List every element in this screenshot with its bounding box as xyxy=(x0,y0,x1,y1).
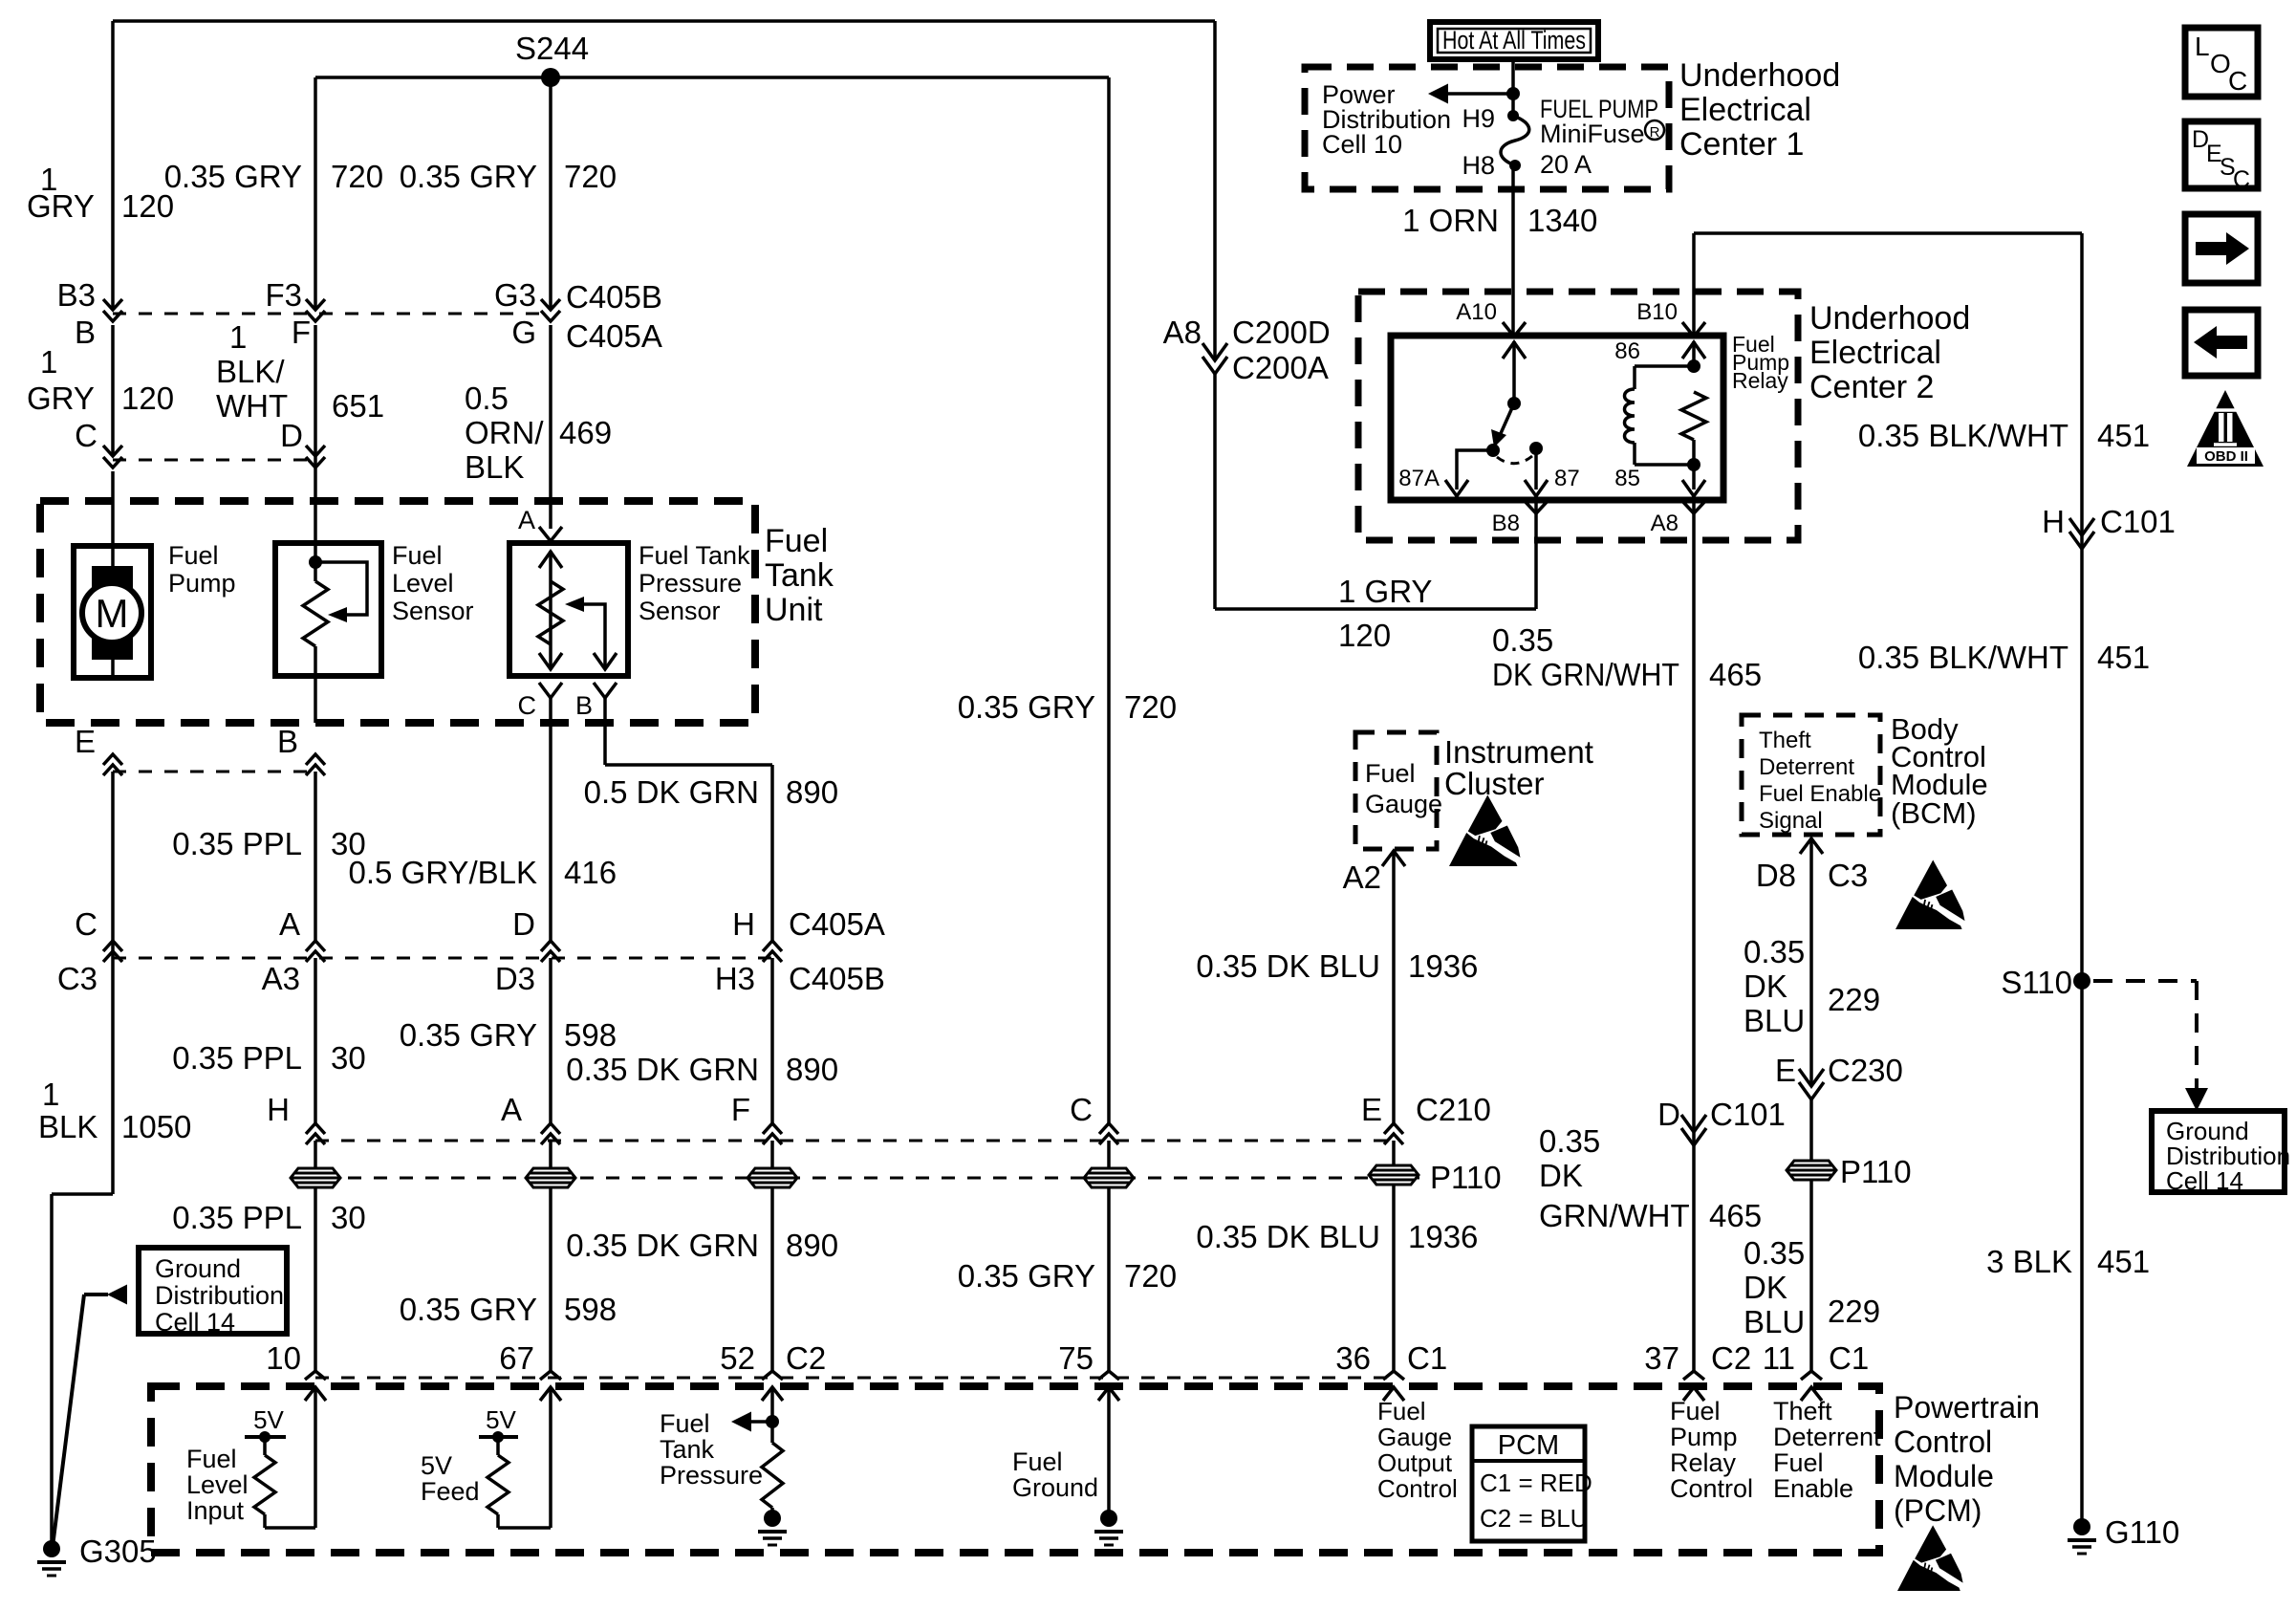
fuel pump M xyxy=(74,546,151,678)
sidebar LOC box xyxy=(2185,28,2258,97)
connector row C210 xyxy=(315,1140,1394,1142)
svg-text:0.35 DK GRN: 0.35 DK GRN xyxy=(566,1228,759,1263)
svg-text:890: 890 xyxy=(786,1052,838,1087)
svg-text:Cell 14: Cell 14 xyxy=(155,1308,235,1337)
svg-text:598: 598 xyxy=(564,1292,617,1327)
svg-text:Input: Input xyxy=(186,1496,245,1525)
connector row C405B/C405A xyxy=(113,313,551,315)
svg-text:85: 85 xyxy=(1614,466,1640,491)
svg-text:D: D xyxy=(512,906,535,942)
svg-text:229: 229 xyxy=(1828,1294,1880,1329)
sidebar back arrow xyxy=(2185,310,2258,376)
relay switch xyxy=(1512,341,1516,403)
svg-text:0.5 DK GRN: 0.5 DK GRN xyxy=(584,774,759,810)
fuel tank unit dashed box xyxy=(40,501,755,723)
svg-text:E: E xyxy=(75,724,96,759)
ESD symbol instrument cluster xyxy=(1449,795,1520,866)
P110 grommet on theft wire xyxy=(1787,1161,1836,1180)
svg-text:0.35 PPL: 0.35 PPL xyxy=(172,1040,302,1076)
svg-text:598: 598 xyxy=(564,1017,617,1053)
svg-text:G110: G110 xyxy=(2105,1514,2179,1550)
svg-text:C405A: C405A xyxy=(566,318,662,354)
svg-text:30: 30 xyxy=(331,1200,366,1235)
svg-text:B: B xyxy=(575,691,593,720)
svg-text:416: 416 xyxy=(564,855,617,890)
svg-text:Electrical: Electrical xyxy=(1809,335,1941,371)
svg-text:Pump: Pump xyxy=(1670,1423,1738,1451)
ground G305 xyxy=(43,1540,60,1557)
svg-text:5V: 5V xyxy=(486,1405,516,1434)
underhood electrical center 2 dashed box xyxy=(1358,292,1798,540)
svg-text:A2: A2 xyxy=(1343,859,1381,895)
PCM fuel tank pressure circuit (pin 52) xyxy=(770,1387,774,1443)
svg-text:P110: P110 xyxy=(1840,1154,1912,1189)
svg-text:PCM: PCM xyxy=(1498,1430,1559,1461)
arrow to ground distribution cell xyxy=(107,1285,127,1305)
svg-text:Feed: Feed xyxy=(421,1477,480,1506)
svg-text:0.35: 0.35 xyxy=(1539,1123,1600,1159)
svg-text:D: D xyxy=(1657,1097,1680,1132)
svg-text:Fuel: Fuel xyxy=(392,541,443,570)
svg-text:C: C xyxy=(1070,1092,1093,1127)
svg-text:0.35 GRY: 0.35 GRY xyxy=(400,1017,537,1053)
svg-text:G305: G305 xyxy=(79,1534,157,1569)
svg-text:451: 451 xyxy=(2097,1244,2150,1279)
svg-text:H3: H3 xyxy=(715,961,755,996)
svg-text:GRY: GRY xyxy=(27,188,95,224)
svg-text:Tank: Tank xyxy=(765,557,834,594)
svg-text:Fuel: Fuel xyxy=(168,541,219,570)
svg-text:OBD II: OBD II xyxy=(2204,448,2248,465)
PCM dashed box xyxy=(151,1386,1879,1553)
svg-text:DK: DK xyxy=(1744,968,1787,1004)
svg-text:BLK: BLK xyxy=(465,449,524,485)
wire: pressure B signal 0.5 DK GRN 890 xyxy=(605,763,772,767)
svg-text:H: H xyxy=(732,906,755,942)
svg-text:Powertrain: Powertrain xyxy=(1894,1390,2040,1425)
svg-text:0.35 GRY: 0.35 GRY xyxy=(958,1258,1095,1294)
svg-text:M: M xyxy=(96,591,129,636)
svg-text:B3: B3 xyxy=(57,277,96,313)
svg-text:Fuel: Fuel xyxy=(765,523,828,559)
svg-text:H9: H9 xyxy=(1462,104,1495,133)
svg-text:67: 67 xyxy=(499,1340,534,1376)
svg-text:0.5: 0.5 xyxy=(465,381,509,416)
svg-text:L: L xyxy=(2195,32,2210,61)
svg-text:Unit: Unit xyxy=(765,592,823,628)
svg-text:Center 2: Center 2 xyxy=(1809,369,1934,405)
svg-text:D8: D8 xyxy=(1756,858,1796,893)
svg-text:0.35 BLK/WHT: 0.35 BLK/WHT xyxy=(1858,418,2069,453)
svg-text:229: 229 xyxy=(1828,982,1880,1017)
svg-text:1050: 1050 xyxy=(121,1109,191,1144)
connector row C/D xyxy=(113,459,315,462)
wire 1 ORN 1340 xyxy=(1511,165,1515,337)
OBD II symbol xyxy=(2187,390,2264,467)
svg-text:Ground: Ground xyxy=(1012,1473,1098,1502)
sidebar DESC box xyxy=(2185,121,2258,188)
svg-text:C: C xyxy=(75,906,97,942)
svg-text:75: 75 xyxy=(1058,1340,1094,1376)
hot at all times tag xyxy=(1430,22,1598,59)
svg-text:651: 651 xyxy=(332,388,384,424)
svg-text:Pressure: Pressure xyxy=(660,1461,763,1490)
connector D C101 xyxy=(1681,1115,1706,1132)
svg-text:Relay: Relay xyxy=(1670,1448,1737,1477)
svg-text:Fuel: Fuel xyxy=(1377,1397,1426,1425)
fuel level sensor xyxy=(275,543,381,676)
svg-text:1 GRY: 1 GRY xyxy=(1338,574,1432,609)
svg-text:465: 465 xyxy=(1709,657,1762,692)
svg-text:Output: Output xyxy=(1377,1448,1453,1477)
svg-text:0.35 GRY: 0.35 GRY xyxy=(958,689,1095,725)
connector row E/B xyxy=(113,771,315,773)
svg-text:720: 720 xyxy=(1124,689,1177,725)
svg-text:87A: 87A xyxy=(1398,466,1440,491)
svg-text:C: C xyxy=(75,418,97,453)
svg-text:Distribution: Distribution xyxy=(155,1281,284,1310)
svg-text:A: A xyxy=(279,906,300,942)
svg-text:D: D xyxy=(280,418,303,453)
svg-text:Fuel: Fuel xyxy=(186,1445,237,1473)
svg-text:ORN/: ORN/ xyxy=(465,415,544,450)
connector row P110 grommets xyxy=(296,1177,1419,1180)
svg-text:Underhood: Underhood xyxy=(1679,57,1840,94)
svg-text:C2: C2 xyxy=(786,1340,826,1376)
svg-text:Pump: Pump xyxy=(168,569,236,598)
sidebar forward arrow xyxy=(2185,214,2258,283)
connector A8 C200D/C200A xyxy=(1202,343,1227,360)
svg-text:B10: B10 xyxy=(1636,299,1678,325)
svg-text:F: F xyxy=(292,315,311,350)
svg-text:0.35 PPL: 0.35 PPL xyxy=(172,826,302,861)
svg-text:A: A xyxy=(518,506,535,534)
svg-text:0.35 DK BLU: 0.35 DK BLU xyxy=(1196,1219,1380,1254)
svg-text:0.35 BLK/WHT: 0.35 BLK/WHT xyxy=(1858,640,2069,675)
svg-text:Gauge: Gauge xyxy=(1377,1423,1452,1451)
svg-text:30: 30 xyxy=(331,1040,366,1076)
svg-text:20 A: 20 A xyxy=(1540,150,1592,179)
theft deterrent signal box xyxy=(1742,715,1880,835)
relay pin B8 xyxy=(1534,496,1538,513)
svg-text:Deterrent: Deterrent xyxy=(1759,754,1854,780)
thin connector row above PCM xyxy=(315,1377,1394,1380)
wire: A8 to relay B8 (1 GRY 120) xyxy=(1213,374,1217,609)
svg-text:Cluster: Cluster xyxy=(1444,766,1545,801)
svg-text:Level: Level xyxy=(392,569,454,598)
svg-text:GRY: GRY xyxy=(27,381,95,416)
svg-text:37: 37 xyxy=(1644,1340,1679,1376)
instrument cluster fuel gauge box xyxy=(1355,732,1437,849)
svg-text:R: R xyxy=(1650,124,1660,141)
ESD symbol PCM xyxy=(1897,1525,1963,1591)
ground distribution cell 14 box (left) xyxy=(139,1248,287,1334)
svg-text:A8: A8 xyxy=(1163,315,1202,350)
svg-text:36: 36 xyxy=(1335,1340,1371,1376)
svg-text:Fuel: Fuel xyxy=(1773,1448,1824,1477)
ground distribution cell 14 box (right) xyxy=(2152,1111,2285,1192)
svg-text:Module: Module xyxy=(1894,1459,1994,1493)
svg-text:C3: C3 xyxy=(1828,858,1868,893)
svg-text:Hot At All Times: Hot At All Times xyxy=(1442,26,1586,54)
svg-text:890: 890 xyxy=(786,1228,838,1263)
svg-text:Underhood: Underhood xyxy=(1809,300,1970,337)
svg-text:GRN/WHT: GRN/WHT xyxy=(1539,1198,1690,1233)
svg-text:C405B: C405B xyxy=(789,961,885,996)
svg-text:C1 = RED: C1 = RED xyxy=(1480,1469,1592,1497)
svg-text:C2: C2 xyxy=(1711,1340,1751,1376)
PCM 5V feed circuit (pin 67) xyxy=(549,1387,552,1528)
svg-text:0.35 GRY: 0.35 GRY xyxy=(164,159,302,194)
svg-text:C405A: C405A xyxy=(789,906,885,942)
svg-text:B: B xyxy=(277,724,298,759)
svg-text:3 BLK: 3 BLK xyxy=(1986,1244,2072,1279)
svg-text:B8: B8 xyxy=(1492,511,1520,536)
svg-text:C200A: C200A xyxy=(1232,350,1329,385)
svg-text:Theft: Theft xyxy=(1759,728,1811,753)
svg-text:H: H xyxy=(267,1092,290,1127)
svg-text:720: 720 xyxy=(564,159,617,194)
wire: B10 feed from 451 branch xyxy=(1692,233,1696,337)
svg-text:Gauge: Gauge xyxy=(1365,790,1442,818)
power distribution arrow xyxy=(1511,59,1515,116)
svg-text:C210: C210 xyxy=(1416,1092,1491,1127)
svg-text:DK GRN/WHT: DK GRN/WHT xyxy=(1492,657,1679,692)
svg-text:B: B xyxy=(75,315,96,350)
underhood electrical center 1 dashed box xyxy=(1305,67,1669,189)
svg-text:0.35 GRY: 0.35 GRY xyxy=(400,1292,537,1327)
svg-text:H8: H8 xyxy=(1462,151,1495,180)
svg-text:451: 451 xyxy=(2097,418,2150,453)
svg-text:Fuel Enable: Fuel Enable xyxy=(1759,781,1881,807)
svg-text:Theft: Theft xyxy=(1773,1397,1832,1425)
relay coil xyxy=(1633,366,1636,389)
svg-text:BLU: BLU xyxy=(1744,1003,1805,1038)
svg-text:720: 720 xyxy=(1124,1258,1177,1294)
svg-text:1: 1 xyxy=(42,1077,59,1112)
svg-text:465: 465 xyxy=(1709,1198,1762,1233)
pressure sensor internals xyxy=(549,551,552,669)
svg-text:G3: G3 xyxy=(494,277,536,313)
connector H C101 xyxy=(2069,518,2094,535)
svg-text:Cell 10: Cell 10 xyxy=(1322,130,1402,159)
svg-text:890: 890 xyxy=(786,774,838,810)
svg-text:(PCM): (PCM) xyxy=(1894,1493,1982,1528)
svg-text:Tank: Tank xyxy=(660,1435,715,1464)
svg-text:0.35: 0.35 xyxy=(1744,934,1805,969)
svg-text:BLK: BLK xyxy=(38,1109,97,1144)
svg-text:5V: 5V xyxy=(253,1405,284,1434)
wire to G305 xyxy=(52,1192,113,1196)
svg-text:1936: 1936 xyxy=(1408,948,1478,984)
svg-text:11: 11 xyxy=(1763,1340,1795,1376)
svg-text:S110: S110 xyxy=(2001,965,2072,1000)
svg-text:Pressure: Pressure xyxy=(639,569,742,598)
svg-text:720: 720 xyxy=(331,159,383,194)
svg-text:D3: D3 xyxy=(495,961,535,996)
fuse FUEL PUMP MiniFuse 20 A xyxy=(1507,110,1519,121)
fuel pump relay box xyxy=(1391,336,1723,500)
svg-text:0.5 GRY/BLK: 0.5 GRY/BLK xyxy=(348,855,537,890)
svg-text:C200D: C200D xyxy=(1232,315,1331,350)
svg-text:MiniFuse: MiniFuse xyxy=(1540,120,1645,148)
fuel gauge wire pin A2 xyxy=(1382,851,1405,866)
svg-text:DK: DK xyxy=(1744,1270,1787,1305)
svg-text:S244: S244 xyxy=(515,31,589,66)
svg-text:87: 87 xyxy=(1554,466,1580,491)
svg-text:(BCM): (BCM) xyxy=(1891,796,1977,830)
svg-text:F: F xyxy=(731,1092,750,1127)
svg-text:Fuel: Fuel xyxy=(660,1409,710,1438)
svg-text:C2 = BLU: C2 = BLU xyxy=(1480,1504,1588,1533)
svg-text:Sensor: Sensor xyxy=(392,597,474,625)
svg-text:1 ORN: 1 ORN xyxy=(1402,203,1499,238)
PCM pin chevrons xyxy=(305,1371,326,1380)
svg-text:Sensor: Sensor xyxy=(639,597,721,625)
svg-text:C: C xyxy=(2228,66,2247,96)
svg-text:C: C xyxy=(518,691,537,720)
svg-text:1340: 1340 xyxy=(1527,203,1597,238)
svg-text:Ground: Ground xyxy=(155,1254,241,1283)
svg-text:A3: A3 xyxy=(262,961,300,996)
svg-text:Fuel: Fuel xyxy=(1365,759,1416,788)
svg-text:Instrument: Instrument xyxy=(1444,734,1593,770)
wire: relay control 465 xyxy=(1692,513,1696,1371)
svg-text:A10: A10 xyxy=(1456,299,1497,325)
svg-text:120: 120 xyxy=(1338,618,1391,653)
svg-text:120: 120 xyxy=(121,381,174,416)
svg-text:H: H xyxy=(2042,504,2065,539)
relay pin A8 xyxy=(1692,496,1696,513)
svg-text:A8: A8 xyxy=(1651,511,1679,536)
svg-text:C101: C101 xyxy=(1710,1097,1786,1132)
svg-text:Cell 14: Cell 14 xyxy=(2166,1166,2243,1195)
relay resistor xyxy=(1681,392,1706,440)
svg-text:Deterrent: Deterrent xyxy=(1773,1423,1881,1451)
svg-text:1: 1 xyxy=(229,319,247,355)
svg-text:DK: DK xyxy=(1539,1158,1583,1193)
svg-text:Electrical: Electrical xyxy=(1679,92,1811,128)
wire: top feed (1 GRY 120) xyxy=(113,19,1215,23)
svg-text:WHT: WHT xyxy=(216,388,288,424)
svg-text:E: E xyxy=(1775,1053,1796,1088)
svg-text:0.35: 0.35 xyxy=(1492,622,1553,658)
theft wire pins D8/C3 xyxy=(1800,838,1823,854)
svg-text:451: 451 xyxy=(2097,640,2150,675)
svg-text:0.35 GRY: 0.35 GRY xyxy=(400,159,537,194)
svg-text:C1: C1 xyxy=(1407,1340,1447,1376)
svg-text:P110: P110 xyxy=(1430,1160,1502,1195)
svg-text:Level: Level xyxy=(186,1470,249,1499)
svg-text:C: C xyxy=(2233,166,2250,193)
svg-text:Control: Control xyxy=(1670,1474,1753,1503)
svg-text:Center 1: Center 1 xyxy=(1679,126,1804,163)
PCM fuel ground (pin 75) xyxy=(1107,1387,1111,1516)
svg-text:86: 86 xyxy=(1614,338,1640,364)
svg-text:Fuel: Fuel xyxy=(1670,1397,1721,1425)
svg-text:Fuel: Fuel xyxy=(1012,1447,1063,1476)
ground G110 xyxy=(2073,1518,2090,1535)
svg-text:0.35 PPL: 0.35 PPL xyxy=(172,1200,302,1235)
svg-text:10: 10 xyxy=(266,1340,301,1376)
svg-text:G: G xyxy=(511,315,536,350)
svg-text:1936: 1936 xyxy=(1408,1219,1478,1254)
connector E C230 xyxy=(1799,1069,1824,1086)
svg-text:Enable: Enable xyxy=(1773,1474,1853,1503)
svg-text:BLU: BLU xyxy=(1744,1304,1805,1339)
svg-text:A: A xyxy=(501,1092,522,1127)
svg-text:469: 469 xyxy=(559,415,612,450)
svg-text:C101: C101 xyxy=(2100,504,2176,539)
wire: segments below C405 xyxy=(111,325,115,456)
svg-text:F3: F3 xyxy=(265,277,302,313)
svg-text:0.35 DK BLU: 0.35 DK BLU xyxy=(1196,948,1380,984)
svg-text:5V: 5V xyxy=(421,1451,452,1480)
svg-text:Control: Control xyxy=(1894,1425,1992,1459)
svg-text:Fuel Tank: Fuel Tank xyxy=(639,541,750,570)
svg-text:BLK/: BLK/ xyxy=(216,354,285,389)
svg-text:1: 1 xyxy=(40,344,57,380)
connector row C405 lower xyxy=(113,957,772,960)
svg-text:C405B: C405B xyxy=(566,279,662,315)
svg-text:E: E xyxy=(1361,1092,1382,1127)
svg-text:C1: C1 xyxy=(1829,1340,1869,1376)
svg-text:Signal: Signal xyxy=(1759,808,1823,834)
svg-text:C230: C230 xyxy=(1828,1053,1903,1088)
PCM legend box xyxy=(1472,1426,1585,1541)
svg-text:Relay: Relay xyxy=(1732,368,1788,393)
wire: S244 branch drops xyxy=(314,77,317,310)
PCM fuel level input circuit (pin 10) xyxy=(314,1387,317,1528)
ESD symbol BCM xyxy=(1895,859,1965,929)
svg-text:C3: C3 xyxy=(57,961,97,996)
svg-text:52: 52 xyxy=(720,1340,755,1376)
svg-text:0.35: 0.35 xyxy=(1744,1235,1805,1271)
svg-text:0.35 DK GRN: 0.35 DK GRN xyxy=(566,1052,759,1087)
svg-text:Control: Control xyxy=(1377,1474,1458,1503)
